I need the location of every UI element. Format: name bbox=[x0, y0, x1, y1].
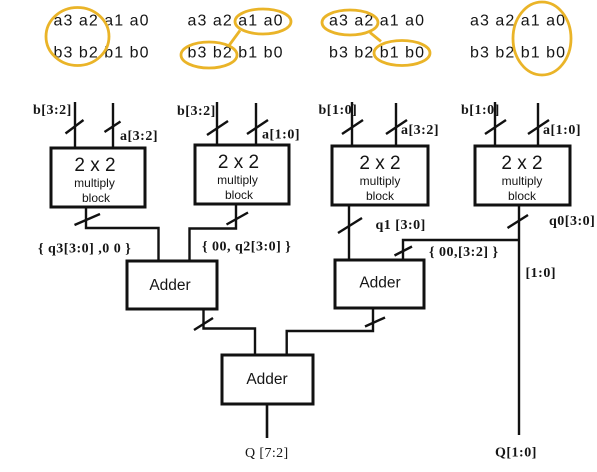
adder A3 bbox=[222, 355, 313, 404]
adder A1 bbox=[127, 261, 217, 309]
svg-text:b[3:2]: b[3:2] bbox=[177, 104, 216, 119]
wire b input U3 bbox=[351, 102, 353, 146]
highlight ellipse group2 (a1 a0) bbox=[235, 9, 291, 34]
wire output A3 bbox=[266, 404, 269, 438]
svg-text:Adder: Adder bbox=[149, 277, 190, 294]
svg-text:Q[1:0]: Q[1:0] bbox=[495, 446, 537, 461]
multiply block U4 bbox=[475, 146, 570, 205]
bus slash output A2 bbox=[365, 318, 385, 327]
bus slash b input U1 bbox=[66, 120, 84, 134]
bus slash b input U2 bbox=[207, 121, 228, 135]
bus slash output A1 bbox=[194, 318, 213, 330]
svg-text:a3 a2 a1 a0: a3 a2 a1 a0 bbox=[470, 13, 566, 30]
bus slash branch q0 bbox=[395, 247, 413, 256]
wire branch q0 upper bits to A2 bbox=[403, 240, 519, 261]
svg-text:b[3:2]: b[3:2] bbox=[33, 103, 72, 118]
svg-text:2 x 2: 2 x 2 bbox=[74, 155, 115, 176]
wire a input U2 bbox=[255, 103, 257, 145]
bus slash a input U3 bbox=[386, 120, 407, 134]
svg-text:multiply: multiply bbox=[74, 176, 115, 190]
bus slash a input U4 bbox=[528, 120, 549, 134]
svg-text:Q [7:2]: Q [7:2] bbox=[245, 446, 289, 461]
svg-text:{ 00,[3:2] }: { 00,[3:2] } bbox=[429, 245, 499, 260]
bus slash output U4 bbox=[508, 215, 529, 228]
svg-text:q1 [3:0]: q1 [3:0] bbox=[376, 218, 426, 233]
svg-text:q0[3:0]: q0[3:0] bbox=[549, 214, 595, 229]
multiply block U3 bbox=[332, 146, 428, 205]
bus slash a input U2 bbox=[247, 120, 268, 134]
bus slash output U3 bbox=[338, 218, 362, 233]
wire b input U2 bbox=[216, 102, 218, 145]
highlight ellipse group1 (a3 a2 / b3 b2) bbox=[46, 8, 109, 66]
svg-text:a[3:2]: a[3:2] bbox=[120, 129, 158, 144]
svg-text:Adder: Adder bbox=[246, 371, 287, 388]
wire output U1 bbox=[86, 207, 159, 262]
highlight ellipse group3 (b1 b0) bbox=[374, 41, 430, 66]
bus slash a input U1 bbox=[105, 122, 121, 133]
wire output U2 bbox=[190, 204, 237, 262]
svg-text:a3 a2 a1 a0: a3 a2 a1 a0 bbox=[54, 13, 150, 30]
wire a input U4 bbox=[537, 103, 539, 146]
svg-text:multiply: multiply bbox=[502, 174, 543, 188]
wire output U4 (q0 down to Q[1:0]) bbox=[518, 205, 520, 435]
svg-text:block: block bbox=[82, 191, 111, 205]
highlight ellipse group2 (b3 b2) bbox=[181, 42, 237, 68]
adder A2 bbox=[335, 260, 424, 308]
svg-text:a[3:2]: a[3:2] bbox=[401, 123, 439, 138]
bus slash b input U3 bbox=[342, 120, 363, 134]
svg-text:block: block bbox=[508, 189, 537, 203]
wire b input U1 bbox=[74, 102, 76, 148]
connector line group2 ellipses bbox=[229, 31, 240, 46]
svg-text:multiply: multiply bbox=[360, 174, 401, 188]
wire output A2 bbox=[287, 308, 373, 356]
svg-text:2 x 2: 2 x 2 bbox=[359, 153, 400, 174]
wire b input U4 bbox=[494, 102, 496, 146]
svg-text:a[1:0]: a[1:0] bbox=[262, 128, 300, 143]
bus slash b input U4 bbox=[485, 120, 506, 134]
bus slash output U2 bbox=[227, 213, 249, 225]
svg-text:2 x 2: 2 x 2 bbox=[218, 152, 259, 173]
highlight ellipse group3 (a3 a2) bbox=[322, 10, 378, 35]
wire output U3 bbox=[348, 205, 350, 261]
svg-text:multiply: multiply bbox=[217, 173, 258, 187]
svg-text:block: block bbox=[225, 188, 254, 202]
svg-text:2 x 2: 2 x 2 bbox=[501, 153, 542, 174]
svg-text:b3 b2 b1 b0: b3 b2 b1 b0 bbox=[54, 45, 150, 62]
connector line group3 ellipses bbox=[370, 33, 381, 42]
svg-text:Adder: Adder bbox=[359, 275, 400, 292]
multiply block U1 bbox=[51, 148, 145, 207]
svg-text:a[1:0]: a[1:0] bbox=[543, 123, 581, 138]
svg-text:block: block bbox=[366, 189, 395, 203]
bus slash output U1 bbox=[75, 214, 101, 225]
svg-text:[1:0]: [1:0] bbox=[526, 266, 557, 281]
svg-text:b[1:0]: b[1:0] bbox=[319, 103, 358, 118]
svg-text:b[1:0]: b[1:0] bbox=[461, 103, 500, 118]
wire a input U3 bbox=[395, 103, 397, 146]
wire output A1 bbox=[204, 309, 256, 356]
svg-text:{ 00, q2[3:0] }: { 00, q2[3:0] } bbox=[202, 240, 291, 255]
wire a input U1 bbox=[112, 103, 114, 148]
highlight ellipse group4 (a1 a0 / b1 b0) bbox=[513, 2, 571, 75]
svg-text:{ q3[3:0] ,0 0 }: { q3[3:0] ,0 0 } bbox=[38, 242, 131, 257]
multiply block U2 bbox=[195, 145, 289, 204]
